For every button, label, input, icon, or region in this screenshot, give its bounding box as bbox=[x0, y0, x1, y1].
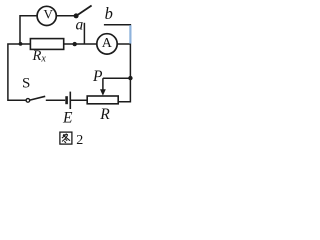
rheostat R body bbox=[87, 96, 118, 104]
wire battery to rheostat bbox=[71, 99, 87, 101]
svg-text:E: E bbox=[62, 110, 73, 127]
wire blue segment of right vertical bbox=[129, 25, 131, 43]
svg-text:a: a bbox=[76, 17, 84, 34]
svg-text:A: A bbox=[102, 36, 113, 51]
wire terminal a stub bbox=[83, 23, 85, 44]
node dot on ammeter left wire bbox=[73, 42, 77, 46]
switch S blade bbox=[30, 96, 45, 100]
voltmeter V circle bbox=[37, 6, 56, 25]
svg-text:P: P bbox=[92, 68, 103, 85]
svg-text:2: 2 bbox=[76, 133, 83, 148]
wire right vertical corner at b bbox=[129, 24, 131, 26]
svg-text:V: V bbox=[44, 7, 54, 22]
resistor Rx body bbox=[30, 39, 63, 50]
wire slider P horizontal bbox=[103, 77, 130, 79]
svg-text:b: b bbox=[105, 4, 113, 23]
svg-text:Rx: Rx bbox=[32, 48, 47, 64]
svg-text:R: R bbox=[99, 106, 110, 123]
wire right vertical lower section bbox=[118, 44, 130, 102]
node dot at P junction on right vertical bbox=[128, 76, 132, 80]
rheostat slider arrowhead bbox=[100, 89, 106, 95]
wire main horizontal Rx line from left corner down left side and bottom to switch bbox=[8, 44, 31, 100]
ammeter A circle bbox=[97, 34, 117, 54]
battery E positive plate (long thin) bbox=[69, 92, 71, 109]
wire terminal b horizontal bbox=[104, 24, 130, 26]
caption glyph 图 (drawn) bbox=[60, 132, 72, 144]
wire voltmeter right to pivot bbox=[56, 15, 76, 17]
wire voltmeter branch: top-left corner down to Rx node bbox=[20, 16, 37, 44]
node dot at voltmeter left junction bbox=[19, 42, 23, 46]
switch blade (selector) at top bbox=[76, 6, 92, 17]
node pivot dot (voltmeter lead) bbox=[74, 13, 79, 18]
wire ammeter left (Rx right end to ammeter) bbox=[64, 43, 97, 45]
battery E negative plate (short thick) bbox=[65, 96, 68, 104]
rheostat slider arrow stem bbox=[102, 78, 104, 91]
wire bottom right of switch to battery bbox=[46, 99, 65, 101]
switch S pivot circle bbox=[26, 99, 30, 103]
svg-text:S: S bbox=[22, 76, 30, 92]
wire ammeter right to right vertical bbox=[117, 43, 130, 45]
